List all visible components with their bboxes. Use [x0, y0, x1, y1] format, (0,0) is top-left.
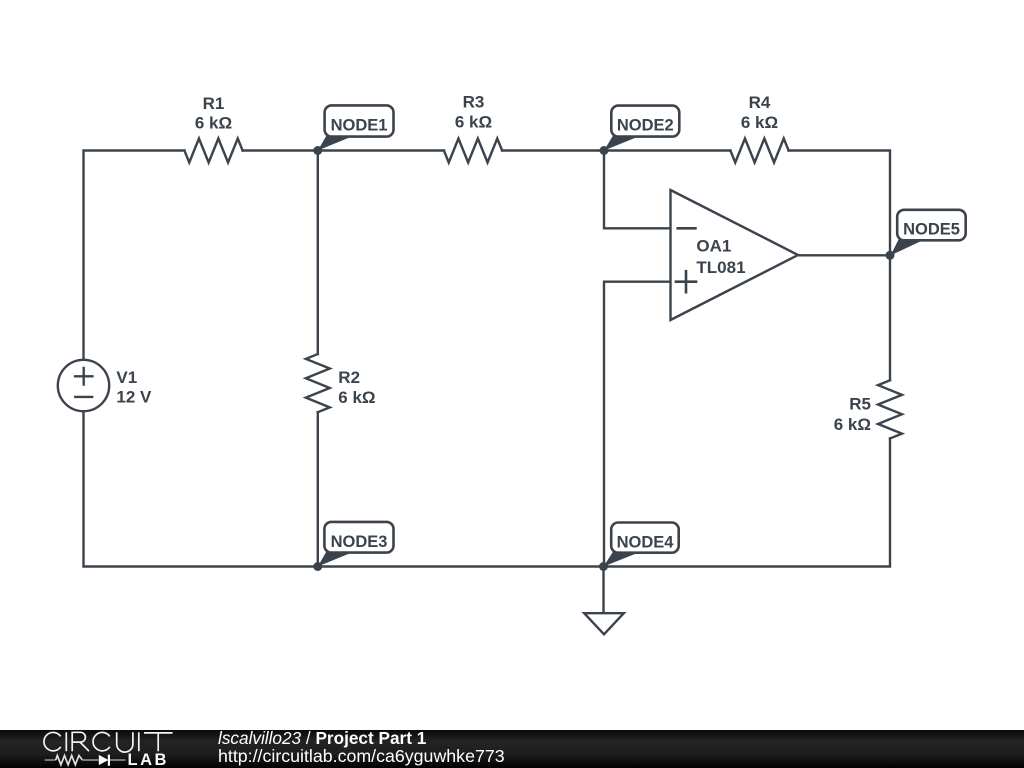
svg-text:LAB: LAB	[128, 751, 169, 768]
label OA1	[696, 237, 731, 256]
junction NODE2	[600, 146, 609, 155]
wire NODE2 to op-amp inverting input	[604, 151, 671, 229]
junction NODE1	[313, 146, 322, 155]
wire R2 to NODE3	[317, 412, 319, 566]
junction NODE5	[886, 251, 895, 260]
svg-text:NODE4: NODE4	[617, 533, 675, 551]
svg-text:lscalvillo23 / Project Part 1: lscalvillo23 / Project Part 1	[218, 728, 427, 748]
node NODE1 tag	[318, 105, 394, 150]
wire NODE3 to V1 bottom (bottom-left corner)	[84, 411, 318, 566]
svg-text:NODE2: NODE2	[617, 116, 674, 134]
value R5 6 kOhm	[834, 415, 871, 434]
svg-text:NODE3: NODE3	[331, 533, 388, 551]
resistor R1	[184, 139, 242, 163]
wire R3 to NODE2	[502, 149, 604, 151]
wire NODE2 to R4	[604, 149, 730, 151]
value R1 6 kOhm	[195, 114, 232, 133]
label R5	[849, 395, 871, 414]
svg-text:R3: R3	[463, 93, 485, 112]
footer url text	[218, 746, 505, 766]
svg-text:NODE5: NODE5	[903, 221, 960, 239]
label R1	[203, 94, 225, 113]
junction NODE3	[313, 562, 322, 571]
svg-text:R5: R5	[849, 395, 871, 414]
label R2	[338, 368, 360, 387]
resistor R2	[306, 354, 330, 412]
logo resistor-diode graphic	[45, 755, 126, 766]
wire op-amp output to NODE5	[798, 254, 890, 256]
value R3 6 kOhm	[455, 112, 492, 131]
voltage source V1	[58, 360, 109, 411]
svg-text:6 kΩ: 6 kΩ	[834, 415, 871, 434]
svg-text:V1: V1	[116, 368, 137, 387]
wire V1 top to R1 (left vertical + top-left horizontal)	[84, 151, 185, 360]
resistor R5	[878, 380, 902, 438]
wire NODE4 to ground	[602, 567, 604, 614]
resistor R3	[444, 139, 502, 163]
value R2 6 kOhm	[338, 388, 375, 407]
svg-text:TL081: TL081	[696, 258, 745, 277]
svg-text:6 kΩ: 6 kΩ	[741, 113, 778, 132]
svg-text:6 kΩ: 6 kΩ	[195, 114, 232, 133]
value OA1 TL081	[696, 258, 745, 277]
wire NODE1 to R3	[318, 149, 444, 151]
label R4	[749, 93, 771, 112]
value R4 6 kOhm	[741, 113, 778, 132]
logo LAB wordmark	[128, 751, 169, 768]
ground	[584, 613, 624, 634]
svg-text:R2: R2	[338, 368, 360, 387]
svg-text:http://circuitlab.com/ca6yguwh: http://circuitlab.com/ca6yguwhke773	[218, 746, 505, 766]
footer title text	[218, 728, 427, 748]
wire R4 to NODE5 (top-right corner)	[789, 151, 890, 256]
svg-text:R1: R1	[203, 94, 225, 113]
footer bar	[0, 730, 1024, 768]
svg-text:6 kΩ: 6 kΩ	[455, 112, 492, 131]
label V1	[116, 368, 137, 387]
wire NODE5 to R5	[889, 255, 891, 380]
node NODE2 tag	[604, 106, 679, 151]
wire R5 to NODE4 (bottom-right corner)	[604, 439, 891, 567]
wire op-amp non-inverting input to NODE4	[604, 282, 671, 567]
svg-text:12 V: 12 V	[116, 388, 152, 407]
svg-text:OA1: OA1	[696, 237, 731, 256]
wire NODE4 to NODE3	[318, 565, 604, 567]
resistor R4	[730, 139, 788, 163]
svg-text:R4: R4	[749, 93, 771, 112]
svg-text:6 kΩ: 6 kΩ	[338, 388, 375, 407]
node NODE3 tag	[318, 522, 394, 567]
wire R1 to NODE1	[243, 149, 318, 151]
logo CIRCUIT wordmark	[44, 732, 173, 752]
svg-text:NODE1: NODE1	[331, 116, 388, 134]
op-amp OA1	[671, 190, 799, 320]
value V1 12 V	[116, 388, 152, 407]
node NODE5 tag	[891, 210, 966, 256]
wire NODE1 to R2	[317, 151, 319, 355]
label R3	[463, 93, 485, 112]
junction NODE4	[599, 562, 608, 571]
node NODE4 tag	[604, 523, 679, 567]
